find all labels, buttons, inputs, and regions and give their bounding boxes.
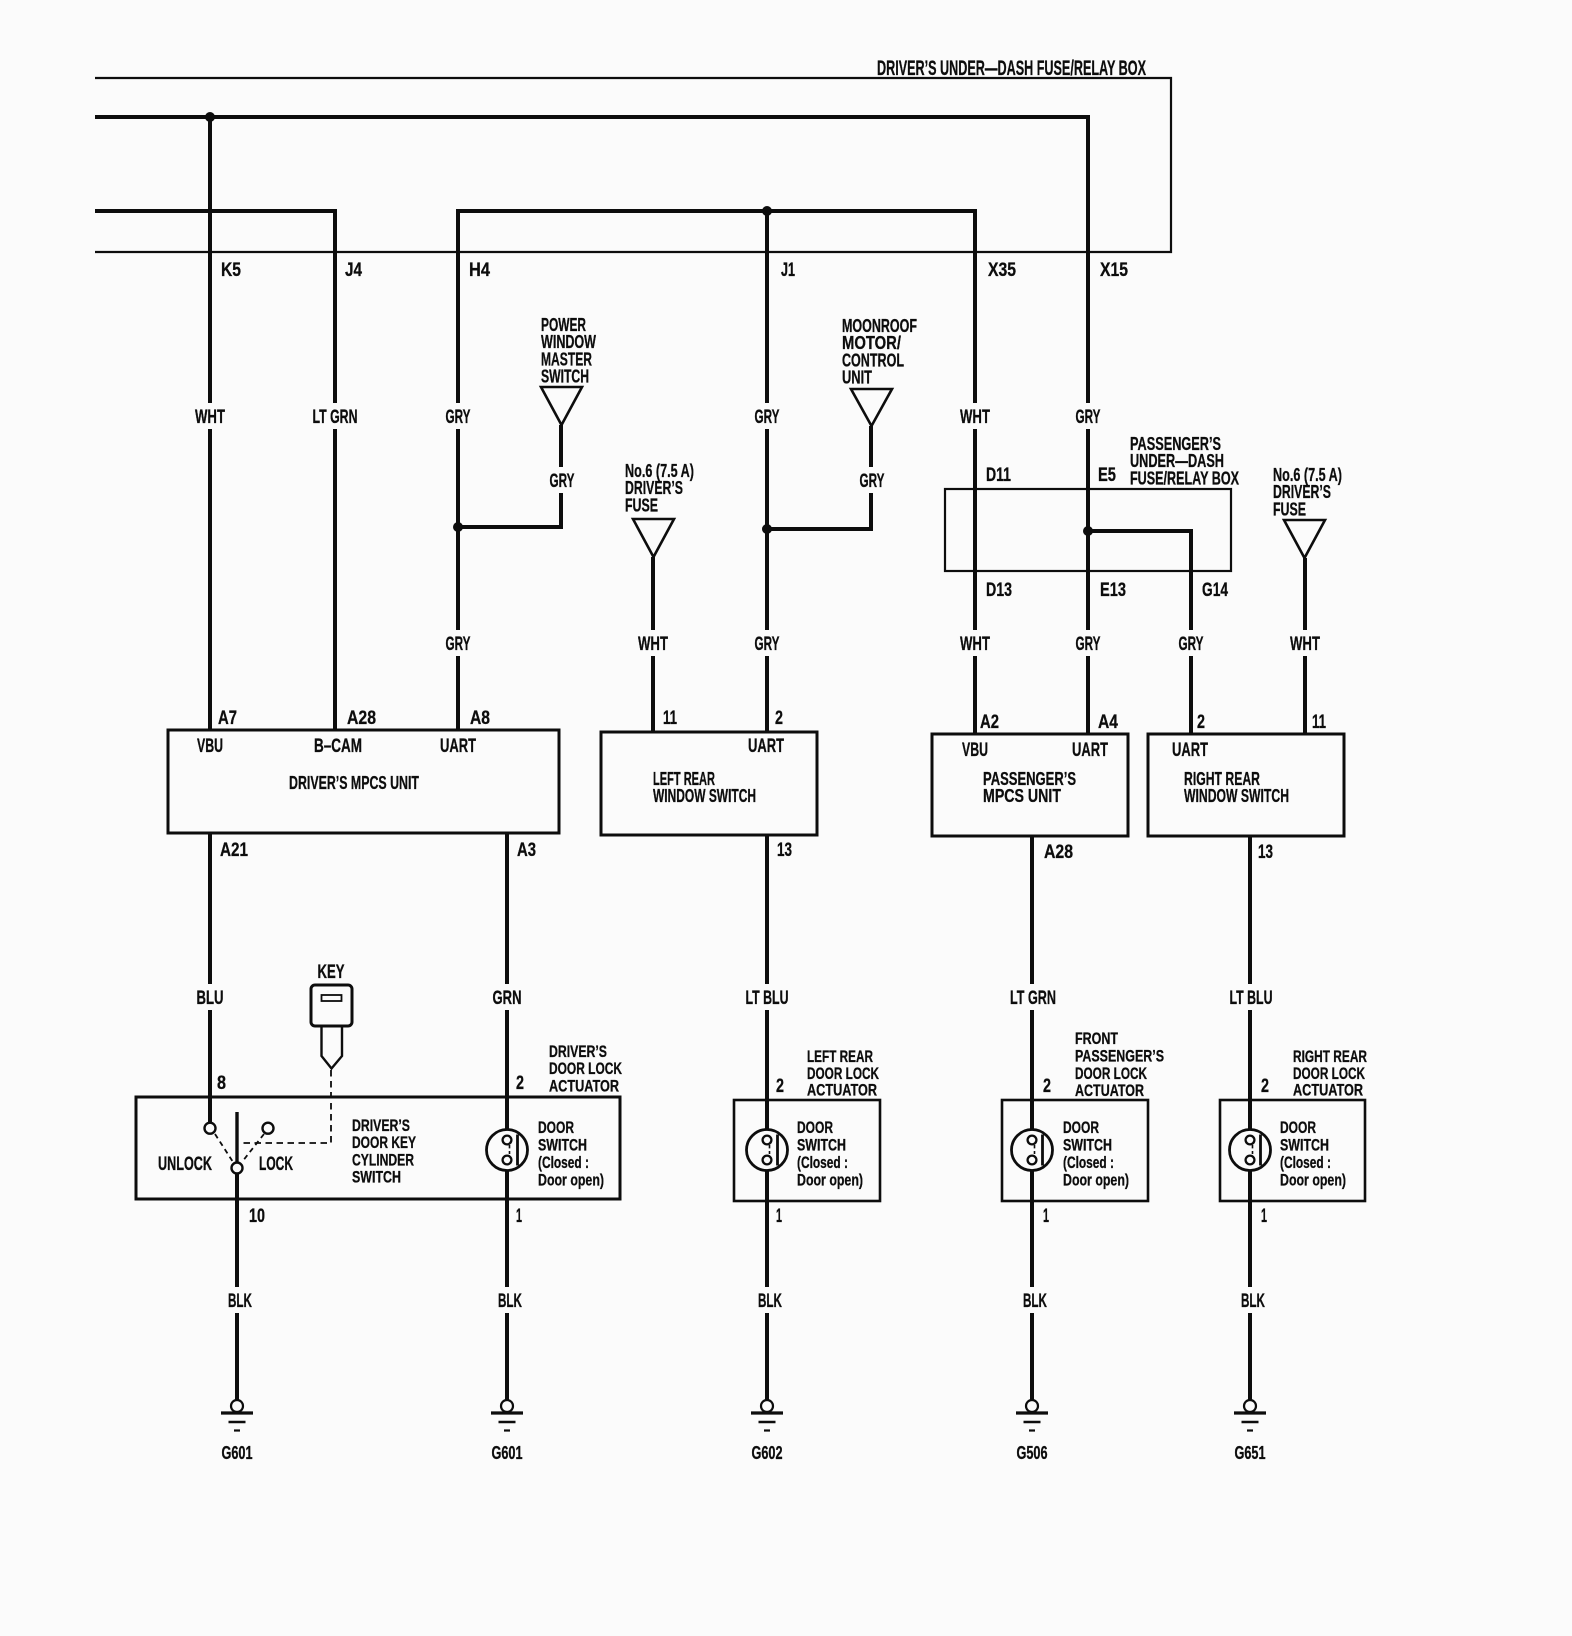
dashed throw linkage UNLOCK side bbox=[215, 1134, 233, 1162]
terminal circle: UNLOCK contact (pin 8) bbox=[205, 1123, 216, 1134]
wire front passenger door switch pin 1 / BLK to G506 bbox=[1030, 1164, 1034, 1400]
wire A28 / LT GRN (to front passenger door switch pin 2) bbox=[1030, 836, 1034, 1136]
wire label BLK (G506) bbox=[1018, 1287, 1052, 1313]
svg-text:A21: A21 bbox=[220, 840, 248, 861]
svg-text:GRN: GRN bbox=[493, 988, 522, 1009]
svg-text:A4: A4 bbox=[1098, 712, 1118, 733]
svg-text:11: 11 bbox=[663, 708, 677, 729]
svg-text:Door open): Door open) bbox=[1063, 1171, 1129, 1190]
svg-text:D13: D13 bbox=[986, 580, 1012, 601]
svg-text:ACTUATOR: ACTUATOR bbox=[549, 1076, 619, 1095]
svg-text:DOOR LOCK: DOOR LOCK bbox=[549, 1059, 623, 1078]
svg-text:A2: A2 bbox=[980, 712, 999, 733]
svg-text:BLK: BLK bbox=[758, 1291, 782, 1312]
svg-text:2: 2 bbox=[516, 1073, 524, 1094]
box: right rear window switch bbox=[1148, 734, 1344, 836]
svg-text:G601: G601 bbox=[222, 1443, 253, 1463]
svg-text:(Closed :: (Closed : bbox=[1063, 1153, 1114, 1172]
svg-text:DOOR KEY: DOOR KEY bbox=[352, 1133, 416, 1152]
svg-text:UART: UART bbox=[1172, 740, 1208, 761]
svg-text:KEY: KEY bbox=[318, 962, 345, 983]
ground G602 at x=767 bbox=[751, 1400, 783, 1431]
door switch symbol: left rear bbox=[747, 1130, 788, 1171]
svg-text:A28: A28 bbox=[1044, 842, 1073, 863]
svg-text:FUSE: FUSE bbox=[625, 495, 658, 515]
svg-text:GRY: GRY bbox=[446, 407, 471, 428]
wire from master switch (GRY) joining H4 bbox=[458, 425, 561, 527]
svg-text:BLK: BLK bbox=[498, 1291, 522, 1312]
svg-text:UNLOCK: UNLOCK bbox=[158, 1154, 212, 1175]
svg-text:PASSENGER’S: PASSENGER’S bbox=[1075, 1046, 1164, 1065]
svg-text:Door open): Door open) bbox=[538, 1171, 604, 1190]
svg-text:8: 8 bbox=[217, 1073, 226, 1094]
wire label GRY (G14) bbox=[1174, 630, 1209, 656]
wire label GRY (H4) bbox=[441, 403, 476, 429]
wire label BLK (G601) bbox=[493, 1287, 527, 1313]
connector triangle: No.6 driver's fuse (left) bbox=[633, 519, 674, 557]
ground G651 at x=1250 bbox=[1234, 1400, 1266, 1431]
connector triangle: No.6 driver's fuse (right) bbox=[1284, 520, 1325, 558]
svg-text:J4: J4 bbox=[345, 260, 362, 281]
svg-text:11: 11 bbox=[1312, 712, 1326, 733]
svg-text:SWITCH: SWITCH bbox=[1280, 1136, 1329, 1155]
svg-text:2: 2 bbox=[1261, 1076, 1269, 1097]
wire left rear door switch pin 1 / BLK to G602 bbox=[765, 1164, 769, 1400]
svg-text:13: 13 bbox=[1258, 842, 1273, 863]
svg-text:B–CAM: B–CAM bbox=[314, 736, 362, 757]
wire label GRY (X15) bbox=[1071, 403, 1106, 429]
svg-text:LOCK: LOCK bbox=[259, 1154, 293, 1175]
driver's under-dash fuse/relay box outline bbox=[95, 78, 1171, 252]
wire label WHT (D13) bbox=[955, 630, 995, 656]
svg-text:X15: X15 bbox=[1100, 260, 1128, 281]
svg-text:DRIVER’S MPCS UNIT: DRIVER’S MPCS UNIT bbox=[289, 773, 419, 793]
junction dot: J1 tap on bus C bbox=[762, 206, 772, 216]
svg-text:WHT: WHT bbox=[960, 634, 990, 655]
svg-text:G601: G601 bbox=[492, 1443, 523, 1463]
bus wire C left with wire J4 / LT GRN (to MPCS A28) bbox=[95, 211, 335, 730]
svg-text:GRY: GRY bbox=[1179, 634, 1204, 655]
svg-text:ACTUATOR: ACTUATOR bbox=[1075, 1081, 1144, 1100]
svg-text:UART: UART bbox=[440, 736, 476, 757]
wire 13 / LT BLU (to left rear door switch pin 2) bbox=[765, 835, 769, 1136]
ground G601 at x=507 bbox=[491, 1400, 523, 1431]
wire from right fuse / WHT (to right rear window switch pin 11) bbox=[1303, 558, 1307, 734]
junction dot: master switch branch on H4 wire bbox=[453, 522, 463, 532]
wire label BLK (G602) bbox=[753, 1287, 787, 1313]
svg-text:DOOR: DOOR bbox=[538, 1118, 574, 1137]
svg-text:A8: A8 bbox=[470, 708, 490, 729]
svg-text:2: 2 bbox=[1043, 1076, 1051, 1097]
wire A3 / GRN (to driver's door switch pin 2) bbox=[505, 833, 509, 1136]
svg-text:LT GRN: LT GRN bbox=[313, 407, 358, 428]
svg-text:DOOR: DOOR bbox=[1280, 1118, 1316, 1137]
bus wire C right: wire H4 / GRY, horizontal, wire X35 / WHT bbox=[458, 211, 975, 734]
door switch symbol: front passenger bbox=[1012, 1130, 1053, 1171]
box: left rear window switch bbox=[601, 732, 817, 835]
dashed throw linkage LOCK side bbox=[242, 1134, 264, 1162]
box: driver's door key cylinder switch / door switch bbox=[136, 1097, 620, 1199]
wire 13 / LT BLU (to right rear door switch pin 2) bbox=[1248, 836, 1252, 1136]
wire label WHT (left fuse) bbox=[633, 630, 673, 656]
dashed linkage: key to lock mechanism bbox=[240, 1070, 331, 1143]
junction dot: moonroof branch on J1 wire bbox=[762, 524, 772, 534]
svg-text:DRIVER’S: DRIVER’S bbox=[352, 1116, 410, 1135]
svg-text:GRY: GRY bbox=[860, 471, 885, 492]
wire label BLK (G651) bbox=[1236, 1287, 1270, 1313]
svg-text:DOOR: DOOR bbox=[797, 1118, 833, 1137]
svg-text:WINDOW SWITCH: WINDOW SWITCH bbox=[1184, 786, 1289, 806]
ground G601 at x=237 bbox=[221, 1400, 253, 1431]
svg-text:SWITCH: SWITCH bbox=[797, 1136, 846, 1155]
svg-text:D11: D11 bbox=[986, 465, 1011, 486]
svg-text:GRY: GRY bbox=[550, 471, 575, 492]
wire label LT GRN (front passenger) bbox=[1005, 984, 1061, 1010]
svg-text:E5: E5 bbox=[1098, 465, 1116, 486]
svg-text:DOOR: DOOR bbox=[1063, 1118, 1099, 1137]
wire from moonroof unit (GRY) joining J1 bbox=[767, 426, 871, 529]
svg-text:GRY: GRY bbox=[755, 634, 780, 655]
svg-text:LT BLU: LT BLU bbox=[1230, 988, 1273, 1009]
svg-text:E13: E13 bbox=[1100, 580, 1126, 601]
terminal circle: common pole (pin 10) bbox=[232, 1163, 243, 1174]
svg-text:FUSE/RELAY BOX: FUSE/RELAY BOX bbox=[1130, 468, 1239, 488]
svg-text:WHT: WHT bbox=[1290, 634, 1320, 655]
svg-text:BLK: BLK bbox=[1023, 1291, 1047, 1312]
svg-text:DRIVER’S UNDER—DASH FUSE/RELAY: DRIVER’S UNDER—DASH FUSE/RELAY BOX bbox=[877, 57, 1146, 80]
svg-text:1: 1 bbox=[1261, 1206, 1267, 1227]
box: passenger's MPCS unit bbox=[932, 734, 1128, 836]
svg-text:G14: G14 bbox=[1202, 580, 1228, 601]
wire from left fuse / WHT (to left rear window switch pin 11) bbox=[651, 557, 655, 732]
wire label LT BLU (left rear) bbox=[741, 984, 794, 1010]
svg-text:WINDOW SWITCH: WINDOW SWITCH bbox=[653, 786, 756, 806]
svg-text:2: 2 bbox=[776, 1076, 784, 1097]
wire J1 / GRY (to left rear window switch pin 2) bbox=[765, 211, 769, 732]
svg-text:WHT: WHT bbox=[638, 634, 668, 655]
svg-text:GRY: GRY bbox=[1076, 407, 1101, 428]
wire label GRY (A8) bbox=[441, 630, 476, 656]
svg-text:1: 1 bbox=[776, 1206, 782, 1227]
svg-text:GRY: GRY bbox=[1076, 634, 1101, 655]
bus wire B with wire X15 vertical (to E5/A4) bbox=[95, 117, 1088, 734]
svg-text:1: 1 bbox=[516, 1206, 522, 1227]
junction dot: K5 tap on bus B bbox=[205, 112, 215, 122]
svg-text:J1: J1 bbox=[781, 260, 795, 281]
svg-text:UART: UART bbox=[1072, 740, 1108, 761]
wire label GRY (J1) bbox=[750, 403, 785, 429]
wire K5 / WHT (to MPCS A7) bbox=[208, 117, 212, 730]
svg-text:DRIVER’S: DRIVER’S bbox=[549, 1042, 607, 1061]
svg-text:(Closed :: (Closed : bbox=[538, 1153, 589, 1172]
svg-text:ACTUATOR: ACTUATOR bbox=[1293, 1081, 1363, 1100]
svg-text:LT BLU: LT BLU bbox=[746, 988, 789, 1009]
box: driver's MPCS unit bbox=[168, 730, 559, 833]
svg-text:SWITCH: SWITCH bbox=[538, 1136, 587, 1155]
connector triangle: moonroof motor/control unit bbox=[851, 389, 892, 426]
svg-text:(Closed :: (Closed : bbox=[797, 1153, 848, 1172]
svg-text:ACTUATOR: ACTUATOR bbox=[807, 1081, 877, 1100]
svg-text:GRY: GRY bbox=[755, 407, 780, 428]
svg-text:BLK: BLK bbox=[1241, 1291, 1265, 1312]
switch pole line (key cylinder switch) bbox=[235, 1112, 238, 1162]
svg-text:VBU: VBU bbox=[962, 740, 988, 761]
wire label GRY (moonroof branch) bbox=[855, 467, 890, 493]
svg-text:FRONT: FRONT bbox=[1075, 1029, 1118, 1048]
svg-text:G506: G506 bbox=[1017, 1443, 1048, 1463]
svg-text:SWITCH: SWITCH bbox=[1063, 1136, 1112, 1155]
wire A21 / BLU (to key cylinder switch pin 8) bbox=[208, 833, 212, 1123]
svg-text:SWITCH: SWITCH bbox=[541, 367, 589, 387]
svg-text:G651: G651 bbox=[1235, 1443, 1266, 1463]
wire label LT GRN (J4) bbox=[308, 403, 363, 429]
svg-text:(Closed :: (Closed : bbox=[1280, 1153, 1331, 1172]
connector triangle: power window master switch bbox=[541, 387, 582, 425]
wire G14 / GRY (to right rear window switch pin 2) bbox=[1088, 531, 1191, 734]
wire label GRY (E13) bbox=[1071, 630, 1106, 656]
svg-text:2: 2 bbox=[775, 708, 783, 729]
ground G506 at x=1032 bbox=[1016, 1400, 1048, 1431]
wire label GRY (master switch branch) bbox=[545, 467, 580, 493]
svg-text:DOOR LOCK: DOOR LOCK bbox=[1075, 1064, 1147, 1083]
svg-text:1: 1 bbox=[1043, 1206, 1049, 1227]
svg-text:2: 2 bbox=[1197, 712, 1205, 733]
svg-text:K5: K5 bbox=[221, 260, 241, 281]
wire driver's door switch pin 1 / BLK to G601 bbox=[505, 1164, 509, 1400]
box: right rear door switch bbox=[1220, 1100, 1365, 1201]
svg-text:LT GRN: LT GRN bbox=[1010, 988, 1056, 1009]
svg-text:A28: A28 bbox=[347, 708, 376, 729]
svg-text:BLK: BLK bbox=[228, 1291, 252, 1312]
wire label BLK (G601 left) bbox=[223, 1287, 257, 1313]
wire pin 10 / BLK to G601 bbox=[235, 1174, 239, 1400]
passenger's under-dash fuse/relay box outline bbox=[945, 489, 1231, 571]
svg-text:X35: X35 bbox=[988, 260, 1016, 281]
door switch symbol: right rear bbox=[1230, 1130, 1271, 1171]
svg-text:WHT: WHT bbox=[960, 407, 990, 428]
box: left rear door switch bbox=[734, 1100, 880, 1201]
svg-text:10: 10 bbox=[249, 1206, 265, 1227]
svg-text:13: 13 bbox=[777, 840, 792, 861]
wire label GRY (J1 lower) bbox=[750, 630, 785, 656]
door switch symbol: driver's bbox=[487, 1130, 528, 1171]
svg-text:GRY: GRY bbox=[446, 634, 471, 655]
key symbol bbox=[311, 985, 352, 1069]
svg-text:FUSE: FUSE bbox=[1273, 499, 1306, 519]
svg-text:SWITCH: SWITCH bbox=[352, 1168, 401, 1187]
svg-text:Door open): Door open) bbox=[1280, 1171, 1346, 1190]
wire label LT BLU (right rear) bbox=[1225, 984, 1278, 1010]
wire label GRN bbox=[488, 984, 527, 1010]
wire label WHT (K5) bbox=[190, 403, 230, 429]
wire label WHT (right fuse) bbox=[1285, 630, 1325, 656]
svg-text:BLU: BLU bbox=[197, 988, 224, 1009]
svg-text:UART: UART bbox=[748, 736, 784, 757]
svg-text:A3: A3 bbox=[517, 840, 536, 861]
terminal circle: LOCK contact bbox=[263, 1123, 274, 1134]
svg-text:VBU: VBU bbox=[197, 736, 223, 757]
svg-text:A7: A7 bbox=[218, 708, 237, 729]
svg-text:H4: H4 bbox=[469, 260, 490, 281]
wire label WHT (X35) bbox=[955, 403, 995, 429]
box: front passenger door switch bbox=[1002, 1100, 1148, 1201]
svg-text:MPCS UNIT: MPCS UNIT bbox=[983, 786, 1061, 806]
junction dot: G14 tap inside passenger box bbox=[1083, 526, 1093, 536]
svg-text:CYLINDER: CYLINDER bbox=[352, 1150, 414, 1169]
wire right rear door switch pin 1 / BLK to G651 bbox=[1248, 1164, 1252, 1400]
svg-text:G602: G602 bbox=[752, 1443, 783, 1463]
svg-text:WHT: WHT bbox=[195, 407, 225, 428]
wire label BLU bbox=[192, 984, 229, 1010]
svg-text:UNIT: UNIT bbox=[842, 368, 872, 388]
svg-text:Door open): Door open) bbox=[797, 1171, 863, 1190]
